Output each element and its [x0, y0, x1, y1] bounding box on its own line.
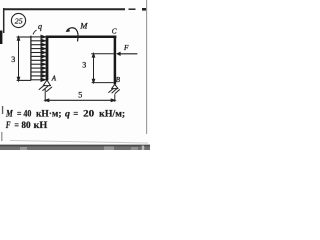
svg-text:5: 5: [78, 91, 82, 100]
svg-text:3: 3: [11, 55, 15, 64]
right dim extension bottom: [92, 82, 114, 84]
svg-text:25: 25: [15, 16, 23, 25]
svg-text:A: A: [51, 75, 57, 83]
svg-text:=: =: [73, 109, 78, 119]
svg-text:F: F: [123, 44, 129, 52]
svg-text:M: M: [79, 21, 88, 31]
right border line: [146, 0, 148, 134]
svg-text:80: 80: [21, 121, 31, 131]
force F arrow: [120, 53, 138, 55]
left dim extension bottom: [17, 79, 31, 81]
q leader line: [33, 30, 37, 34]
moment M arc arrow: [67, 28, 78, 42]
svg-text:q: q: [38, 22, 42, 31]
svg-text:C: C: [112, 28, 117, 36]
extension below B: [114, 94, 116, 102]
svg-text:M: M: [5, 109, 13, 119]
left edge ink blob: [0, 31, 2, 45]
svg-text:кН/м;: кН/м;: [99, 109, 125, 119]
svg-text:B: B: [116, 76, 121, 84]
svg-text:20: 20: [83, 109, 94, 119]
svg-text:=: =: [17, 109, 22, 119]
svg-text:кН·м;: кН·м;: [36, 109, 62, 119]
distributed load q boundary line: [30, 36, 32, 81]
svg-text:F: F: [5, 121, 11, 131]
paper background: [0, 0, 150, 150]
svg-text:кН: кН: [34, 121, 49, 131]
right column member C-B: [114, 37, 117, 84]
top beam member: [46, 35, 117, 38]
svg-text:40: 40: [23, 109, 31, 119]
left border line: [3, 8, 5, 33]
right dim extension top (F level): [91, 53, 113, 55]
dimension 5 line: [45, 99, 115, 101]
given data text line 2: [5, 121, 48, 131]
dimension 3 (right) line: [92, 54, 94, 83]
bottom scan band: [0, 145, 150, 150]
top border line: [3, 8, 147, 10]
svg-text:q: q: [65, 109, 70, 119]
left dim extension top: [17, 36, 31, 38]
svg-text:=: =: [14, 121, 19, 131]
extension below A: [44, 89, 46, 102]
bottom faint rule: [10, 141, 148, 144]
svg-text:3: 3: [82, 61, 86, 70]
left column member A-top: [46, 36, 49, 80]
dimension 3 (left) line: [17, 37, 19, 81]
task number circle 25: [11, 13, 25, 27]
distributed load q arrows: [31, 35, 45, 81]
given data text line 1: [5, 109, 125, 119]
support B: [108, 84, 119, 94]
support A: [39, 80, 52, 92]
